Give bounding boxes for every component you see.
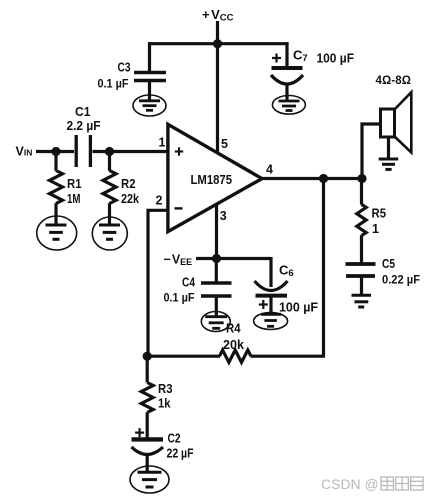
svg-text:C4: C4 <box>182 275 195 289</box>
svg-text:1: 1 <box>372 222 379 236</box>
wire R1 branch <box>54 152 57 171</box>
capacitor C6 polarized <box>255 281 288 296</box>
wire R3 top lead <box>146 356 149 382</box>
speaker horn <box>395 92 412 152</box>
wire R1 bottom lead <box>54 203 57 225</box>
junction node output-feedback <box>319 174 328 183</box>
wire C4 top lead <box>215 259 218 283</box>
svg-text:2: 2 <box>156 193 163 207</box>
svg-text:C6: C6 <box>279 262 294 279</box>
junction node VEE <box>212 254 221 263</box>
wire C4 bottom lead <box>215 297 218 318</box>
wire feedback horizontal right <box>251 355 326 358</box>
ground R1 (circled) <box>37 216 77 250</box>
ground C2 (circled) <box>130 466 169 493</box>
svg-text:22k: 22k <box>121 192 139 206</box>
ground C6 (circled) <box>254 313 288 330</box>
junction node output-load <box>357 174 366 183</box>
svg-text:R1: R1 <box>67 177 82 191</box>
watermark CJK glyph 1 <box>381 477 394 490</box>
op-amp plus input symbol <box>175 147 183 155</box>
svg-text:R5: R5 <box>372 206 387 220</box>
wire +VCC stub <box>216 21 219 45</box>
svg-text:C3: C3 <box>118 61 131 75</box>
ground R2 (circled) <box>92 217 127 250</box>
wire C3 top lead <box>148 42 151 71</box>
wire feedback horizontal left <box>147 355 220 358</box>
plus mark C7 <box>272 54 281 63</box>
svg-text:R3: R3 <box>158 382 173 396</box>
wire -VEE rail <box>196 257 271 260</box>
svg-text:20k: 20k <box>223 338 244 352</box>
capacitor C4 plates <box>201 283 232 296</box>
junction node input-R2 <box>105 147 114 156</box>
svg-text:22 µF: 22 µF <box>167 446 194 460</box>
svg-text:C1: C1 <box>75 104 91 119</box>
wire speaker branch <box>362 124 381 180</box>
wire R2 bottom lead <box>108 203 111 225</box>
watermark CJK glyph 2 <box>396 477 409 490</box>
wire C5 bottom lead <box>360 278 363 296</box>
svg-text:0.22 µF: 0.22 µF <box>382 273 420 287</box>
watermark CJK glyph 3 <box>411 477 424 490</box>
op-amp minus input symbol <box>175 207 183 209</box>
svg-text:+VCC: +VCC <box>202 7 234 24</box>
wire speaker ground stem <box>387 137 390 159</box>
wire C6 bottom lead <box>269 297 272 316</box>
resistor R2 zigzag <box>103 171 116 204</box>
wire R5 top lead <box>360 179 363 205</box>
wire C7 bottom lead <box>285 83 288 102</box>
svg-text:4Ω-8Ω: 4Ω-8Ω <box>376 75 412 87</box>
capacitor C7 polarized <box>271 68 303 84</box>
wire pin 3 <box>215 203 218 259</box>
svg-text:−VEE: −VEE <box>164 252 193 267</box>
wire C2 bottom lead <box>146 453 149 472</box>
svg-text:C5: C5 <box>382 257 395 271</box>
wire pin 2 feedback <box>148 210 168 356</box>
wire output pin 4 <box>262 177 362 180</box>
wire C3 bottom lead <box>148 81 151 101</box>
junction node feedback <box>143 352 152 361</box>
svg-text:4: 4 <box>266 163 273 177</box>
capacitor C1 plates <box>76 135 90 167</box>
svg-text:LM1875: LM1875 <box>191 172 233 187</box>
junction node VCC <box>213 39 222 48</box>
resistor R4 zigzag <box>220 350 252 362</box>
wire C7 top lead <box>285 42 288 66</box>
junction node input-R1 <box>51 147 60 156</box>
wire feedback right vertical <box>322 179 325 357</box>
ground C3 (circled) <box>133 95 166 116</box>
resistor R1 zigzag <box>50 171 63 204</box>
svg-text:R2: R2 <box>121 177 136 191</box>
speaker body <box>381 109 395 137</box>
capacitor C5 plates <box>346 264 376 276</box>
svg-text:100 µF: 100 µF <box>279 300 318 314</box>
wire input VIN to C1 <box>36 150 74 153</box>
wire pin 5 <box>216 44 219 153</box>
svg-text:0.1 µF: 0.1 µF <box>164 290 195 304</box>
ground C5 <box>352 295 372 307</box>
capacitor C2 polarized <box>132 439 164 454</box>
plus mark C2 <box>135 428 144 437</box>
wire R5 bottom lead <box>360 235 363 262</box>
plus mark C6 <box>259 300 268 309</box>
svg-text:5: 5 <box>221 137 228 151</box>
svg-text:100 µF: 100 µF <box>317 51 355 66</box>
svg-text:VIN: VIN <box>16 145 33 159</box>
svg-text:1k: 1k <box>158 396 171 410</box>
svg-text:R4: R4 <box>226 321 241 335</box>
svg-text:0.1 µF: 0.1 µF <box>98 77 129 91</box>
wire C1 to pin 1 <box>93 150 168 153</box>
op-amp U1 LM1875 triangle <box>168 124 262 231</box>
resistor R5 zigzag <box>357 204 366 235</box>
ground speaker <box>379 159 399 169</box>
svg-text:2.2 µF: 2.2 µF <box>67 119 101 133</box>
svg-text:1: 1 <box>159 135 166 149</box>
wire R2 branch <box>108 152 111 171</box>
capacitor C3 plates <box>134 73 166 81</box>
wire R3 bottom lead <box>146 412 149 438</box>
svg-text:1M: 1M <box>67 192 81 206</box>
ground C4 (circled) <box>201 312 230 332</box>
ground C7 (circled) <box>272 96 305 115</box>
resistor R3 zigzag <box>141 383 153 413</box>
svg-text:3: 3 <box>220 209 227 223</box>
svg-text:C7: C7 <box>293 48 308 65</box>
wire VCC rail <box>148 42 289 45</box>
svg-text:CSDN @: CSDN @ <box>321 476 379 492</box>
wire C6 top lead <box>269 257 272 287</box>
svg-text:C2: C2 <box>168 431 181 445</box>
